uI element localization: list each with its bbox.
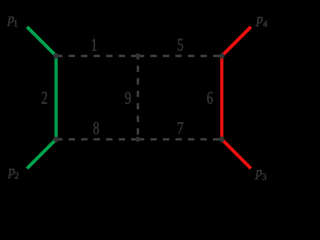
vertex dot top-left: [53, 53, 59, 59]
label 9: [125, 92, 130, 104]
propagator 5 (dashed, top-right segment): [138, 55, 222, 57]
label 5: [178, 39, 183, 51]
label 6: [207, 92, 213, 104]
external leg p4 (red diagonal): [222, 27, 251, 56]
propagator 6 (red, right vertical edge): [220, 56, 223, 139]
external leg p3 (red diagonal): [222, 139, 251, 168]
label p3: [255, 170, 266, 180]
label 8: [93, 122, 98, 134]
propagator 2 (green, left vertical edge): [54, 56, 57, 139]
vertex dot bottom-right: [219, 137, 225, 143]
external leg p1 (green diagonal): [27, 27, 56, 56]
vertex dot top-right: [219, 53, 225, 59]
propagator 9 (dashed, middle vertical): [137, 56, 139, 139]
propagator 7 (dashed, bottom-right segment): [138, 138, 222, 140]
label 7: [178, 122, 183, 134]
vertex dot top-center: [135, 53, 140, 58]
label 1: [92, 39, 97, 51]
vertex dot bottom-center: [135, 137, 140, 142]
external leg p2 (green diagonal): [27, 139, 56, 168]
vertex dot bottom-left: [53, 137, 59, 143]
label p4: [256, 17, 268, 27]
label 2: [42, 92, 47, 104]
propagator 8 (dashed, bottom-left segment): [56, 138, 138, 140]
label p2: [8, 169, 19, 179]
label p1: [7, 16, 17, 26]
propagator 1 (dashed, top-left segment): [56, 55, 138, 57]
